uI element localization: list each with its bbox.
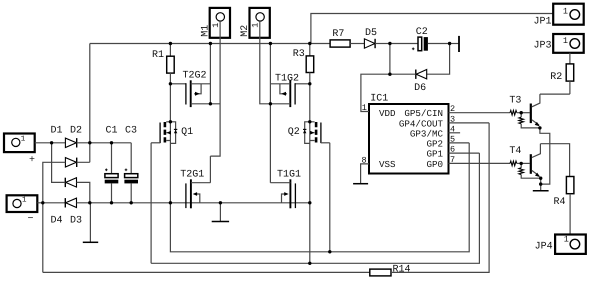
transistor T1G2 (P-MOSFET high side right) <box>270 80 309 107</box>
svg-text:D4: D4 <box>51 216 63 227</box>
svg-text:Q2: Q2 <box>288 127 300 138</box>
svg-text:JP1: JP1 <box>534 17 552 28</box>
diode D4 <box>65 198 76 207</box>
wire T4 emitter to ground <box>540 178 542 191</box>
svg-text:1: 1 <box>251 23 261 28</box>
svg-text:8: 8 <box>362 155 367 165</box>
svg-text:JP4: JP4 <box>535 242 553 253</box>
svg-text:C3: C3 <box>125 126 137 137</box>
pin 2 wire GP5 to T3 <box>449 112 511 114</box>
wire row1 (D1 cathode to caps) <box>77 142 132 144</box>
wire X2 to bridge / ground rail <box>37 202 65 204</box>
pin 1 VDD wire <box>361 44 390 112</box>
wire bridge right column <box>77 44 90 163</box>
svg-text:1: 1 <box>362 103 367 113</box>
svg-text:T2G2: T2G2 <box>183 71 207 82</box>
transistor Q2 (N-MOSFET level shifter right) <box>303 84 330 203</box>
svg-text:R4: R4 <box>554 197 566 208</box>
wire GP4/R14 rail right part <box>391 123 489 273</box>
svg-text:R14: R14 <box>393 265 411 276</box>
svg-text:1: 1 <box>21 135 26 143</box>
svg-text:IC1: IC1 <box>370 94 388 105</box>
resistor R3 <box>306 44 314 84</box>
transistor T4 (NPN) <box>530 144 541 177</box>
wire GP1 rail <box>151 153 479 263</box>
connector M1 <box>210 8 230 38</box>
svg-text:5: 5 <box>450 134 455 144</box>
svg-text:D5: D5 <box>365 28 377 39</box>
svg-text:T3: T3 <box>509 95 521 106</box>
wire JP1 feed <box>311 14 553 44</box>
wire -in column to D2 and R14 rail <box>43 162 66 272</box>
ground GND3 (VSS) <box>353 183 368 185</box>
svg-text:1: 1 <box>563 36 568 46</box>
wire X1 to bridge <box>35 142 66 144</box>
svg-text:R1: R1 <box>152 50 164 61</box>
connector M2 <box>250 8 270 38</box>
svg-text:VDD: VDD <box>379 108 396 119</box>
ground GND4 (T4 emitter) <box>533 190 549 192</box>
wire T3 collector to R2 <box>540 93 570 95</box>
svg-text:3: 3 <box>450 114 455 124</box>
svg-text:D1: D1 <box>51 126 63 137</box>
pin 4 stub GP3 <box>449 132 461 134</box>
connector X1 (+ input) <box>4 134 35 167</box>
diode D5 <box>364 39 390 48</box>
wire D3 to ground rail <box>77 182 90 202</box>
capacitor C2 <box>390 37 450 51</box>
wire Q2 gate riser to GP2 rail <box>329 143 331 252</box>
transistor T2G1 (N-MOSFET low side left) <box>186 179 211 208</box>
svg-text:4: 4 <box>450 125 455 135</box>
svg-text:1: 1 <box>564 234 569 244</box>
open terminal stub <box>450 36 459 52</box>
resistor R1 <box>167 44 175 84</box>
resistor R14 <box>370 269 391 276</box>
svg-text:−: − <box>28 214 34 225</box>
resistor T3 pulldown (zigzag) <box>519 113 540 128</box>
wire Q1 gate riser to GP1 rail <box>150 143 152 263</box>
svg-text:7: 7 <box>450 155 455 165</box>
svg-text:T4: T4 <box>509 146 521 157</box>
wire T3 base node <box>517 112 530 114</box>
resistor T4 base (zigzag) <box>510 161 517 166</box>
svg-text:Q1: Q1 <box>181 127 193 138</box>
svg-text:GP0: GP0 <box>426 159 443 170</box>
wire T4 base node <box>517 162 530 164</box>
transistor T3 (NPN) <box>530 94 540 126</box>
svg-text:T1G1: T1G1 <box>277 170 301 181</box>
IC1 PIC12 <box>369 104 449 174</box>
transistor T2G2 (P-MOSFET high side left) <box>170 80 210 107</box>
svg-text:M1: M1 <box>200 25 211 37</box>
svg-text:VSS: VSS <box>379 159 396 170</box>
svg-text:D3: D3 <box>70 216 82 227</box>
svg-text:6: 6 <box>450 145 455 155</box>
resistor T3 base (zigzag) <box>510 110 517 115</box>
connector JP1 <box>553 4 584 25</box>
transistor T1G1 (N-MOSFET low side right) <box>270 179 295 208</box>
svg-text:D6: D6 <box>414 83 426 94</box>
svg-text:1: 1 <box>22 197 27 205</box>
svg-text:1: 1 <box>563 7 568 17</box>
transistor Q1 (N-MOSFET level shifter left) <box>151 84 177 203</box>
wire T3 emitter run <box>540 128 550 184</box>
resistor R7 <box>310 40 365 47</box>
svg-text:R2: R2 <box>550 72 562 83</box>
wire M1 half-bridge column <box>210 44 220 183</box>
pin 8 VSS wire <box>361 164 369 184</box>
svg-text:2: 2 <box>450 104 455 114</box>
svg-text:C2: C2 <box>416 27 428 38</box>
wire T4 collector to R4 <box>540 144 569 177</box>
wire GP2 rail <box>170 143 469 252</box>
svg-text:C1: C1 <box>106 126 118 137</box>
svg-text:+: + <box>29 155 35 166</box>
ground GND2 <box>212 203 229 222</box>
svg-text:D2: D2 <box>70 126 82 137</box>
pin 3 wire GP4 <box>449 122 490 124</box>
connector JP3 <box>553 34 584 53</box>
pin 6 wire GP1 <box>449 152 480 154</box>
wire M1 pin <box>210 21 220 156</box>
wire ground rail <box>77 202 310 204</box>
svg-text:JP3: JP3 <box>534 40 552 51</box>
resistor T4 pulldown (zigzag) <box>519 163 541 178</box>
wire GP4/R14 rail left part <box>43 271 370 273</box>
diode D3 <box>65 178 76 187</box>
svg-text:M2: M2 <box>240 25 251 37</box>
wire M2 pin <box>260 21 271 104</box>
pin 5 wire GP2 <box>449 142 470 144</box>
diode D2 <box>65 158 76 167</box>
svg-text:1: 1 <box>211 23 221 28</box>
svg-text:T1G2: T1G2 <box>275 74 299 85</box>
diode D1 <box>65 138 76 147</box>
diode D6 <box>390 44 450 79</box>
resistor R2 <box>566 53 574 94</box>
wire top +V rail <box>90 43 310 45</box>
capacitor C3 <box>124 143 138 203</box>
wire riser +in to D3 <box>52 143 66 183</box>
connector JP4 <box>555 234 586 254</box>
ground GND1 <box>83 203 98 243</box>
resistor R4 <box>566 177 574 235</box>
svg-text:T2G1: T2G1 <box>180 170 204 181</box>
svg-text:R7: R7 <box>332 29 344 40</box>
svg-text:R3: R3 <box>293 49 305 60</box>
pin 7 wire GP0 to T4 <box>449 162 511 164</box>
wire M2 half-bridge column <box>269 44 271 183</box>
capacitor C1 <box>105 143 119 203</box>
connector X2 (- input) <box>7 195 38 225</box>
